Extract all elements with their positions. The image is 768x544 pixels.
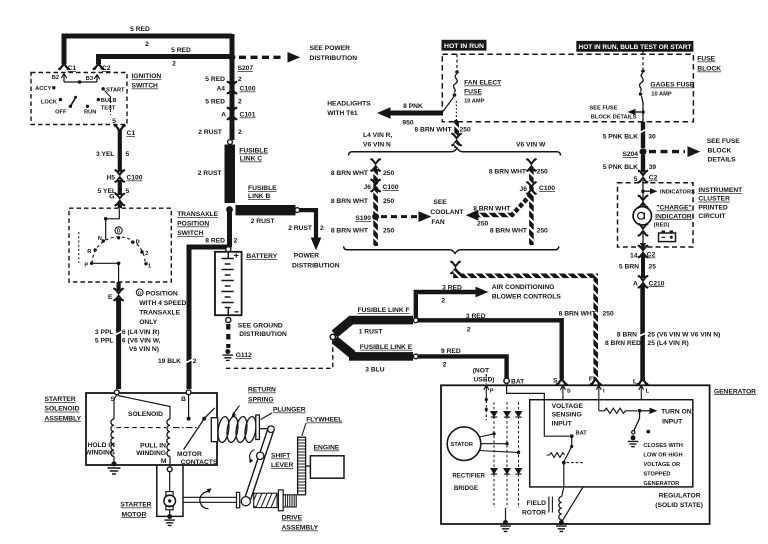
stator — [447, 427, 481, 461]
svg-text:HEADLIGHTS: HEADLIGHTS — [327, 101, 371, 108]
svg-text:FAN ELECT: FAN ELECT — [464, 80, 502, 87]
field rotor coil — [559, 497, 562, 520]
svg-text:19 BLK: 19 BLK — [158, 358, 181, 365]
svg-text:8 BRN WHT: 8 BRN WHT — [331, 170, 369, 177]
stator winding taps — [480, 434, 519, 453]
contact 1 — [144, 262, 147, 265]
svg-text:MOTOR: MOTOR — [122, 511, 147, 518]
svg-text:2: 2 — [145, 251, 148, 257]
connector C2 pin 5 — [638, 170, 648, 183]
svg-text:D: D — [136, 240, 140, 246]
fuse block — [442, 54, 693, 122]
wire dashed ground net to fusible link junction — [226, 340, 333, 368]
plunger — [256, 415, 260, 440]
fusible link F — [335, 319, 353, 334]
svg-text:J6: J6 — [364, 184, 372, 191]
svg-text:(RED): (RED) — [654, 222, 670, 228]
wire P dashed into rectifier — [485, 396, 487, 420]
svg-text:2 RUST: 2 RUST — [288, 225, 313, 232]
svg-text:SOLENOID: SOLENOID — [45, 406, 80, 413]
fuse FAN ELECT 10 AMP — [456, 54, 458, 70]
svg-text:5: 5 — [112, 118, 116, 125]
svg-text:2 RUST: 2 RUST — [198, 129, 223, 136]
svg-text:ONLY: ONLY — [139, 319, 158, 326]
wire 3 YEL ignition to C100 — [118, 130, 122, 172]
svg-text:FLYWHEEL: FLYWHEEL — [306, 417, 342, 424]
svg-text:POWER: POWER — [294, 253, 319, 260]
svg-text:TEST: TEST — [101, 106, 116, 112]
wire 5 PNK BLK S204 to C2 — [641, 155, 645, 173]
svg-text:2: 2 — [443, 362, 447, 369]
wire 8 BRN WHT right branch — [526, 159, 536, 172]
ground hold in winding — [111, 461, 116, 466]
svg-text:FUSIBLE LINK F: FUSIBLE LINK F — [358, 307, 410, 314]
wire 2 RUST to power distribution — [300, 210, 317, 239]
ground starter motor — [169, 510, 171, 514]
connector C100 pin J6 left — [371, 179, 381, 192]
svg-text:DISTRIBUTION: DISTRIBUTION — [310, 55, 358, 62]
svg-text:8 PNK: 8 PNK — [403, 103, 423, 110]
svg-text:G: G — [109, 194, 114, 201]
svg-text:CIRCUIT: CIRCUIT — [698, 213, 726, 220]
svg-text:S204: S204 — [622, 151, 638, 158]
drive flange — [278, 490, 283, 511]
svg-text:WITH T61: WITH T61 — [327, 110, 358, 117]
svg-text:HOT IN RUN, BULB TEST OR START: HOT IN RUN, BULB TEST OR START — [579, 44, 692, 51]
ground generator right — [556, 520, 567, 531]
terminal S — [556, 379, 567, 385]
svg-text:SENSING: SENSING — [552, 412, 582, 419]
svg-text:(NOT: (NOT — [473, 368, 490, 375]
svg-text:LINK C: LINK C — [240, 156, 262, 163]
wire fan fuse to headlights — [443, 97, 454, 112]
rotation arrow drive shaft — [200, 492, 209, 509]
svg-text:V6 VIN W: V6 VIN W — [516, 141, 546, 148]
svg-text:1 RUST: 1 RUST — [359, 329, 384, 336]
wire trunk feed down to fusible link C — [230, 34, 235, 140]
svg-text:D: D — [117, 229, 121, 235]
svg-text:PULL IN: PULL IN — [140, 443, 166, 450]
wire regulator to ground — [563, 487, 584, 521]
connector C1 ignition switch — [58, 64, 69, 70]
svg-text:FUSE: FUSE — [697, 56, 715, 63]
starter motor — [166, 492, 173, 496]
drive end plate — [237, 492, 240, 507]
switch battery sense — [570, 434, 574, 438]
starter motor housing — [157, 465, 183, 516]
svg-text:R: R — [87, 249, 91, 255]
terminal BAT — [504, 378, 509, 383]
svg-text:DISTRIBUTION: DISTRIBUTION — [292, 263, 340, 270]
svg-text:INDICATORS: INDICATORS — [660, 190, 695, 196]
battery icon — [659, 233, 676, 242]
feed HOT IN RUN — [442, 40, 487, 51]
svg-text:BLOWER CONTROLS: BLOWER CONTROLS — [492, 293, 562, 300]
svg-text:VOLTAGE OR: VOLTAGE OR — [643, 462, 680, 468]
svg-text:C1: C1 — [68, 65, 77, 72]
svg-text:S190: S190 — [355, 215, 371, 222]
svg-text:F: F — [589, 376, 593, 383]
svg-text:STOPPED: STOPPED — [643, 472, 670, 478]
svg-text:5: 5 — [126, 151, 130, 158]
plunger link dashed — [117, 427, 167, 429]
connector fan fuse harness — [452, 133, 462, 146]
svg-text:ACCY: ACCY — [35, 86, 51, 92]
svg-text:A: A — [221, 112, 226, 119]
svg-text:250: 250 — [603, 311, 614, 318]
ignition switch pin B2 — [61, 74, 66, 83]
svg-text:POSITION: POSITION — [146, 290, 178, 297]
svg-text:SWITCH: SWITCH — [177, 230, 204, 237]
resistor turn on input — [599, 408, 637, 413]
switch lever — [70, 98, 75, 106]
fusible link B — [236, 205, 296, 215]
flywheel — [298, 437, 306, 495]
svg-text:INPUT: INPUT — [552, 420, 573, 427]
fuse GAGES 10 AMP — [642, 52, 644, 70]
svg-text:9 RED: 9 RED — [441, 348, 461, 355]
svg-text:LOCK: LOCK — [41, 100, 58, 106]
drive clutch — [254, 493, 277, 507]
svg-text:C100: C100 — [240, 86, 256, 93]
svg-text:TRANSAXLE: TRANSAXLE — [177, 211, 218, 218]
svg-text:2 RUST: 2 RUST — [198, 170, 223, 177]
svg-text:GAGES FUSE: GAGES FUSE — [650, 82, 694, 89]
svg-text:2: 2 — [193, 358, 197, 365]
connector C210 pin A — [638, 275, 648, 288]
svg-text:3 PPL: 3 PPL — [95, 329, 114, 336]
svg-text:HOT IN RUN: HOT IN RUN — [444, 43, 485, 50]
svg-text:C210: C210 — [649, 280, 665, 287]
svg-text:3 RED: 3 RED — [466, 313, 486, 320]
connector C100 pin A4 — [227, 81, 237, 94]
splice S190 — [372, 213, 379, 220]
svg-text:C2: C2 — [102, 65, 111, 72]
wire 5 PNK BLK fuse to S204 — [641, 122, 645, 148]
ground generator left — [500, 520, 511, 531]
terminal S solenoid — [114, 390, 119, 395]
svg-text:INDICATOR: INDICATOR — [655, 213, 692, 220]
contact LOCK — [59, 98, 62, 101]
svg-text:8 BRN: 8 BRN — [617, 332, 637, 339]
svg-text:FUSE: FUSE — [464, 89, 482, 96]
connector C100 pin H5 — [115, 170, 125, 183]
svg-text:POSITION: POSITION — [177, 221, 209, 228]
svg-text:8 BRN WHT: 8 BRN WHT — [331, 228, 369, 235]
svg-text:TURN ON: TURN ON — [661, 409, 692, 416]
svg-text:L: L — [646, 389, 650, 395]
svg-text:14: 14 — [630, 253, 638, 260]
svg-text:2: 2 — [238, 99, 242, 106]
fusible link C — [225, 145, 236, 204]
connector C100 pin J6 right — [526, 182, 536, 195]
svg-text:5: 5 — [126, 188, 130, 195]
connector cluster lamp bottom — [638, 223, 648, 236]
instrument cluster printed circuit — [618, 183, 694, 247]
rotary contact arc — [92, 237, 145, 264]
svg-text:OFF: OFF — [55, 110, 67, 116]
wire dashed battery ground — [226, 324, 230, 348]
rectifier bridge — [494, 402, 519, 508]
brace bottom merge — [344, 246, 559, 253]
svg-text:SWITCH: SWITCH — [132, 83, 159, 90]
svg-text:FIELD: FIELD — [527, 500, 546, 507]
connector C2 ignition switch — [93, 64, 104, 70]
svg-text:L: L — [633, 379, 637, 386]
svg-text:CONTACTS: CONTACTS — [181, 459, 218, 466]
lamp CHARGE indicator — [633, 207, 651, 225]
connector merged harness — [451, 261, 461, 274]
connector C101 pin A — [227, 107, 237, 120]
svg-text:E: E — [108, 294, 113, 301]
svg-text:3 RED: 3 RED — [442, 284, 462, 291]
svg-text:"CHARGE": "CHARGE" — [656, 205, 691, 212]
contact ACCY — [52, 86, 55, 89]
splice S207 — [229, 54, 236, 61]
splice S204 — [640, 148, 647, 155]
svg-text:5 PNK BLK: 5 PNK BLK — [603, 134, 638, 141]
node fusible link B end — [295, 208, 300, 213]
svg-text:2: 2 — [234, 238, 238, 245]
svg-text:DRIVE: DRIVE — [282, 515, 303, 522]
svg-text:SEE FUSE: SEE FUSE — [707, 138, 741, 145]
svg-text:PLUNGER: PLUNGER — [273, 407, 306, 414]
terminal B solenoid — [186, 390, 191, 395]
svg-text:2: 2 — [238, 129, 242, 136]
regulator (solid state) — [530, 400, 693, 487]
svg-text:GENERATOR: GENERATOR — [643, 481, 679, 487]
wire 8 BRN WHT to generator F — [456, 271, 596, 381]
ground G112 — [223, 349, 234, 360]
motor contacts — [188, 395, 190, 417]
wire 9 RED to generator BAT — [418, 356, 507, 378]
svg-text:CLUSTER: CLUSTER — [698, 196, 730, 203]
svg-text:250: 250 — [477, 221, 488, 228]
svg-text:BULB: BULB — [101, 98, 117, 104]
contact 2 — [140, 250, 143, 253]
wire B2 to B3 link — [64, 81, 97, 83]
drive pinion — [283, 495, 296, 507]
svg-text:25 (L4 VIN R): 25 (L4 VIN R) — [648, 340, 689, 347]
svg-text:B3: B3 — [86, 76, 93, 82]
svg-text:8 BRN WHT: 8 BRN WHT — [414, 127, 452, 134]
svg-text:8 RED: 8 RED — [205, 238, 225, 245]
svg-text:V6 VIN N): V6 VIN N) — [129, 346, 159, 353]
svg-text:FUSIBLE LINK E: FUSIBLE LINK E — [360, 344, 413, 351]
svg-text:G112: G112 — [236, 352, 252, 359]
battery — [215, 252, 242, 315]
svg-text:C2: C2 — [647, 252, 656, 259]
svg-text:FUSIBLE: FUSIBLE — [239, 148, 268, 155]
svg-text:C101: C101 — [240, 112, 256, 119]
svg-text:SEE POWER: SEE POWER — [310, 45, 351, 52]
svg-text:INSTRUMENT: INSTRUMENT — [698, 187, 743, 194]
svg-text:S207: S207 — [238, 65, 254, 72]
wire cluster feed — [642, 180, 644, 206]
node fusible link F end — [413, 318, 418, 323]
svg-text:B2: B2 — [52, 75, 59, 81]
svg-text:J6: J6 — [520, 186, 528, 193]
svg-text:2 RUST: 2 RUST — [251, 218, 276, 225]
svg-text:LEVER: LEVER — [271, 462, 293, 469]
svg-text:B: B — [181, 396, 186, 403]
fusible link E — [335, 340, 353, 355]
wire 3 RED to air conditioning blower controls — [416, 292, 476, 318]
contact OFF — [69, 105, 72, 108]
connector transaxle switch — [115, 193, 125, 206]
wire 8 BRN WHT to coolant fan V6 — [512, 194, 531, 215]
drive yoke ball — [241, 497, 250, 506]
svg-text:5 BRN: 5 BRN — [619, 263, 639, 270]
connector transaxle output pin E — [116, 282, 120, 291]
svg-text:MOTOR: MOTOR — [177, 451, 202, 458]
svg-text:GENERATOR: GENERATOR — [714, 388, 756, 395]
engine — [310, 456, 344, 478]
svg-text:LOW OR HIGH: LOW OR HIGH — [643, 453, 682, 459]
wire 8 PNK headlights arrow — [386, 111, 443, 116]
svg-text:V6 VIN N: V6 VIN N — [363, 141, 391, 148]
svg-text:5 RED: 5 RED — [171, 47, 191, 54]
node battery negative — [226, 317, 231, 322]
svg-text:H5: H5 — [106, 175, 115, 182]
node fusible link C top — [228, 140, 233, 145]
svg-text:INPUT: INPUT — [662, 418, 683, 425]
svg-text:C100: C100 — [127, 175, 143, 182]
svg-text:BATTERY: BATTERY — [246, 253, 277, 260]
svg-text:10 AMP: 10 AMP — [651, 92, 672, 98]
svg-text:RUN: RUN — [84, 110, 96, 116]
svg-text:SOLENOID: SOLENOID — [128, 411, 163, 418]
svg-text:ROTOR: ROTOR — [522, 510, 546, 517]
connector cluster lamp top — [638, 195, 648, 208]
wire 3 RED to generator S — [418, 320, 562, 379]
svg-text:A4: A4 — [216, 86, 225, 93]
wire gages fuse details tap — [642, 96, 644, 122]
wire 8 BRN to generator L — [640, 285, 645, 380]
rotary indicator D — [115, 227, 122, 234]
svg-text:2: 2 — [467, 327, 471, 334]
svg-text:5 PNK BLK: 5 PNK BLK — [603, 164, 638, 171]
svg-text:SPRING: SPRING — [248, 397, 274, 404]
svg-text:8 BRN WHT: 8 BRN WHT — [490, 228, 528, 235]
svg-text:ASSEMBLY: ASSEMBLY — [45, 415, 82, 422]
svg-text:1: 1 — [148, 263, 151, 269]
svg-text:BLOCK: BLOCK — [697, 66, 721, 73]
svg-text:COOLANT: COOLANT — [430, 209, 464, 216]
svg-text:ENGINE: ENGINE — [314, 445, 340, 452]
svg-text:VOLTAGE: VOLTAGE — [552, 403, 584, 410]
svg-text:WINDING: WINDING — [85, 450, 115, 457]
svg-text:TRANSAXLE: TRANSAXLE — [139, 309, 180, 316]
svg-text:STARTER: STARTER — [120, 502, 151, 509]
coil hold in winding — [111, 419, 114, 456]
starter solenoid assembly — [86, 393, 217, 465]
wire BAT feed to regulator — [507, 384, 570, 437]
svg-text:C2: C2 — [649, 175, 658, 182]
svg-text:250: 250 — [460, 127, 471, 134]
svg-text:WITH 4 SPEED: WITH 4 SPEED — [139, 300, 186, 307]
wire cluster output — [642, 232, 644, 243]
svg-text:M: M — [161, 458, 167, 465]
svg-text:IGNITION: IGNITION — [132, 73, 162, 80]
feed HOT IN RUN BULB TEST OR START — [576, 41, 693, 52]
svg-text:REGULATOR: REGULATOR — [659, 492, 701, 499]
svg-text:3 YEL: 3 YEL — [96, 151, 114, 158]
wire 3 PPL / 5 PPL to starter solenoid S — [116, 298, 121, 389]
connector C2 pin 14 — [638, 245, 648, 258]
node fusible link E end — [413, 354, 418, 359]
svg-text:2: 2 — [172, 61, 176, 68]
svg-text:CLOSES WITH: CLOSES WITH — [643, 443, 683, 449]
transaxle position switch — [69, 208, 171, 282]
node junction below fusible link C — [226, 206, 233, 213]
svg-text:10 AMP: 10 AMP — [464, 99, 485, 105]
contact N — [102, 239, 105, 242]
wire S to windings — [114, 395, 117, 420]
svg-text:BLOCK: BLOCK — [708, 147, 732, 154]
svg-text:BAT: BAT — [511, 378, 525, 385]
wire rotary common — [92, 263, 119, 282]
node indicators tap — [641, 189, 645, 193]
ignition switch pin B3 — [94, 75, 99, 83]
svg-text:6 (L4 VIN R): 6 (L4 VIN R) — [122, 329, 160, 336]
svg-text:L4 VIN R,: L4 VIN R, — [363, 132, 392, 139]
svg-text:RETURN: RETURN — [248, 387, 276, 394]
contact START — [102, 87, 105, 90]
svg-text:6 (V6 VIN W,: 6 (V6 VIN W, — [122, 338, 161, 345]
shift lever — [259, 428, 268, 430]
svg-text:WINDING: WINDING — [136, 450, 166, 457]
generator — [441, 385, 710, 524]
wire fan fuse drop — [455, 101, 457, 120]
svg-text:30: 30 — [648, 134, 656, 141]
svg-text:USED): USED) — [474, 377, 495, 384]
svg-text:C100: C100 — [383, 184, 399, 191]
wire inside transaxle switch — [106, 208, 120, 219]
svg-text:25 (V6 VIN W V6 VIN N): 25 (V6 VIN W V6 VIN N) — [648, 332, 721, 339]
svg-text:RECTIFIER: RECTIFIER — [452, 473, 485, 480]
svg-text:3 BLU: 3 BLU — [365, 367, 384, 374]
svg-text:S: S — [553, 378, 558, 385]
wire 5 RED top from ignition C1 to splice S207 — [64, 36, 232, 64]
svg-text:250: 250 — [383, 228, 394, 235]
svg-text:8 BRN WHT: 8 BRN WHT — [489, 169, 527, 176]
svg-text:FUSIBLE: FUSIBLE — [248, 185, 277, 192]
svg-text:SEE GROUND: SEE GROUND — [238, 323, 283, 330]
wire 8 BRN WHT left branch — [371, 159, 381, 172]
svg-text:2: 2 — [238, 76, 242, 83]
svg-text:5 RED: 5 RED — [130, 26, 150, 33]
svg-text:AIR CONDITIONING: AIR CONDITIONING — [492, 284, 555, 291]
svg-text:BRIDGE: BRIDGE — [454, 485, 478, 492]
svg-text:5 RED: 5 RED — [205, 99, 225, 106]
svg-text:PRINTED: PRINTED — [698, 204, 728, 211]
svg-text:8 BRN WHT: 8 BRN WHT — [473, 206, 511, 213]
svg-text:(SOLID STATE): (SOLID STATE) — [655, 502, 703, 509]
svg-text:DISTRIBUTION: DISTRIBUTION — [239, 331, 287, 338]
node battery positive — [226, 247, 231, 252]
svg-text:950: 950 — [402, 120, 413, 127]
svg-text:START: START — [106, 88, 125, 94]
svg-text:HOLD IN: HOLD IN — [88, 442, 116, 449]
svg-text:8 BRN RED: 8 BRN RED — [605, 340, 641, 347]
svg-text:FAN: FAN — [431, 219, 445, 226]
rotation arrow shift lever — [250, 450, 255, 461]
wire 19 BLK battery to starter solenoid B — [189, 247, 232, 389]
note D position 4 speed — [136, 289, 143, 296]
svg-text:C1: C1 — [127, 130, 136, 137]
svg-text:P: P — [84, 262, 88, 268]
